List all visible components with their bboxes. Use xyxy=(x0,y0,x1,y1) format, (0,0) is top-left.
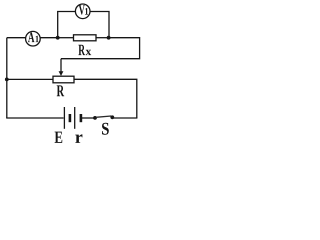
battery cell plates xyxy=(64,107,81,129)
voltmeter label V xyxy=(79,5,85,14)
voltmeter V1 circle xyxy=(75,4,90,19)
label subscript x of Rx xyxy=(86,50,92,55)
battery short plate 2 xyxy=(80,114,83,122)
switch right terminal dot xyxy=(110,115,114,119)
wire wiper vertical xyxy=(60,59,62,72)
wire Rx to node B xyxy=(96,37,109,39)
ammeter label A xyxy=(28,32,34,42)
label R of Rx xyxy=(78,45,85,55)
battery short plate 1 xyxy=(69,114,72,122)
resistor Rx box xyxy=(74,35,97,41)
wire rheostat right terminal down to bottom rail xyxy=(74,79,137,118)
switch label S xyxy=(102,123,109,135)
ammeter label subscript 1 xyxy=(36,36,39,42)
node B junction dot xyxy=(107,36,111,40)
battery label E xyxy=(55,132,63,143)
wire voltmeter branch right (down to node B) xyxy=(90,12,109,38)
battery long plate 1 xyxy=(63,107,65,129)
battery label r (internal resistance) xyxy=(75,134,82,143)
voltmeter label subscript 1 xyxy=(85,8,88,15)
wire left vertical rail xyxy=(6,38,8,118)
node A junction dot xyxy=(56,36,60,40)
wire main row: left rail to ammeter xyxy=(7,37,26,39)
wire bottom rail left segment xyxy=(6,117,63,119)
battery long plate 2 xyxy=(74,107,76,129)
switch left terminal dot xyxy=(93,116,97,120)
switch blade xyxy=(96,116,111,117)
wire ammeter to node A xyxy=(40,37,58,39)
rheostat label R xyxy=(57,85,64,96)
wire voltmeter branch left (node A up and right) xyxy=(58,12,76,38)
wire switch to right rail xyxy=(113,117,138,119)
wire battery to switch xyxy=(81,117,95,119)
ammeter A1 circle xyxy=(26,31,41,46)
wire node A to resistor Rx xyxy=(58,37,74,39)
node C junction dot on left rail xyxy=(5,78,9,82)
rheostat wiper arrowhead xyxy=(59,71,64,76)
wire rheostat left terminal to left rail xyxy=(7,78,53,80)
wire node B right, down, left to wiper xyxy=(61,38,140,59)
rheostat R box xyxy=(53,76,74,83)
